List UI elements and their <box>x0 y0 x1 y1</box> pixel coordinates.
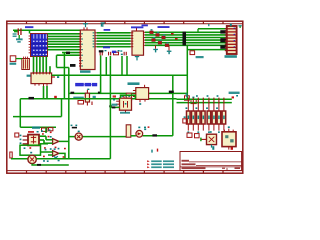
node marks caps row <box>118 50 123 55</box>
wires U3 bottom drops <box>44 86 48 99</box>
label R11 <box>73 97 84 100</box>
junction bar V2 low <box>72 127 77 129</box>
bus DIS1 to U1 <box>48 34 81 55</box>
wire crystal drop <box>29 30 31 33</box>
wire K1 to V5 <box>110 106 119 108</box>
series resistors on bus <box>150 29 178 46</box>
transistor Q9 <box>190 51 204 58</box>
wire stub column B <box>56 55 58 67</box>
wire to J1 pin1 <box>198 28 227 30</box>
node marks cluster H <box>24 147 60 162</box>
resistor R7 <box>216 104 221 130</box>
frame column ticks <box>27 21 224 173</box>
label U1 value <box>80 70 91 72</box>
label net mid <box>158 26 170 28</box>
label MCU big <box>75 83 97 86</box>
resistor R10 <box>49 128 53 131</box>
bus double line right <box>177 102 232 104</box>
junction blob J1-3 <box>220 45 226 49</box>
node marks above title block <box>151 146 233 152</box>
wire bottom mid <box>36 158 110 160</box>
frame outer border <box>7 21 243 173</box>
resistor R1 <box>186 104 191 130</box>
buzzer LS1 <box>75 131 82 141</box>
junction blob H10 <box>152 134 157 136</box>
main vertical V2 <box>68 68 70 159</box>
wire pin1 riser <box>197 29 199 33</box>
junction blob V8 top <box>169 91 174 93</box>
optocoupler U4 <box>20 135 46 146</box>
LED matrix DIS1 <box>29 34 48 57</box>
wire V5a <box>105 57 107 75</box>
wire to J1 pin8 <box>187 49 227 51</box>
red label cluster G <box>28 131 34 133</box>
wire V7 <box>126 56 128 75</box>
node marks V2 low <box>71 125 78 127</box>
wire H7 long <box>20 98 176 100</box>
capacitor C7 <box>126 93 131 100</box>
motor M1 <box>28 152 36 164</box>
diode D8 <box>15 133 19 137</box>
capacitor C5 <box>78 96 96 105</box>
bus U1 to U2 <box>97 33 131 47</box>
resistor R9 <box>42 128 48 131</box>
junction blob H7 <box>29 97 35 100</box>
bridge BR1 <box>200 131 216 147</box>
label R group <box>32 126 40 128</box>
power flag drop A <box>153 45 158 52</box>
label net top <box>142 25 148 27</box>
power flag U2 bottom <box>135 56 139 60</box>
bus end marks <box>229 92 240 99</box>
resistor R4 <box>202 104 206 130</box>
resistor R6 <box>212 104 216 130</box>
label U5 <box>128 82 140 85</box>
wire V9 <box>186 45 188 99</box>
power flag U1 top <box>83 23 88 27</box>
wire H8 <box>13 116 62 118</box>
resistor network RN1 <box>22 57 30 70</box>
label net C <box>103 46 110 48</box>
wire V6 <box>121 56 123 75</box>
diode D7 <box>10 152 12 158</box>
label U1 name <box>104 29 111 31</box>
wire H10 <box>143 135 173 137</box>
transistor Q6 <box>183 116 188 123</box>
junction blob H6b <box>98 92 101 94</box>
resistor R11 <box>85 89 89 106</box>
wire top rail <box>13 29 80 31</box>
node mark above J1 <box>230 24 232 27</box>
feedback loop wire <box>20 145 41 155</box>
IC U3 <box>31 72 52 86</box>
label U2 name <box>131 26 143 28</box>
wire stub G2 <box>40 143 48 145</box>
capacitor C9 <box>126 125 131 137</box>
power flag drop B <box>167 45 172 54</box>
IC U5 <box>133 85 149 103</box>
node marks red cluster H <box>29 147 64 158</box>
wire H9 <box>20 126 56 128</box>
junction blob bottom <box>37 164 41 166</box>
junction blob <box>66 52 70 54</box>
node mark H7 <box>54 96 57 98</box>
transistor Q3 <box>185 93 197 103</box>
wire V5 <box>109 56 111 159</box>
node marks on bus <box>186 95 218 97</box>
node marks below resistors <box>187 131 219 133</box>
label X1 <box>25 26 33 28</box>
wire H4 <box>52 74 188 76</box>
connector J1 <box>225 26 237 54</box>
wires DIS1 bottom to U3 <box>34 57 51 74</box>
node marks right of D5 <box>144 126 149 130</box>
bus U2 to J1 <box>145 32 227 45</box>
resistor R2 <box>192 104 196 130</box>
transistor Q4 <box>187 133 192 137</box>
node tick frame top A <box>101 24 102 27</box>
junction blob <box>70 64 76 67</box>
sensor SW1 <box>10 56 22 65</box>
junction blob V5 <box>109 105 112 107</box>
label K1 <box>120 112 130 114</box>
pin U3 right <box>52 76 60 78</box>
crystal X1 <box>13 28 23 42</box>
junction blob J1-1 <box>220 30 226 33</box>
wire K1 top to U5 <box>121 95 136 99</box>
IC U2 <box>131 28 145 55</box>
bus ticks <box>188 98 224 105</box>
ground symbol below U7B <box>54 156 59 159</box>
node mark right of J1 <box>238 25 241 28</box>
junction blob K1 <box>112 106 115 108</box>
label net D <box>112 51 116 54</box>
node mark U5 <box>139 103 141 105</box>
junction blob J1-2 <box>220 38 226 42</box>
wire bottom left <box>11 158 28 160</box>
label J1 <box>225 55 237 58</box>
diode D5 <box>131 127 146 138</box>
title block <box>180 152 242 171</box>
junction blob <box>99 50 104 52</box>
bus bar black <box>183 32 187 46</box>
wire stub column A <box>63 53 65 99</box>
wire stub G1 <box>45 128 47 133</box>
label U3 <box>27 75 31 77</box>
junction blob H6a <box>71 92 75 94</box>
wire bottom stub <box>32 164 69 165</box>
wire H3 <box>57 67 69 69</box>
wire V8 <box>172 75 174 136</box>
wire V12 <box>19 99 21 128</box>
resistor R3 <box>196 104 201 130</box>
decoupling caps row <box>100 50 127 55</box>
wire H6 <box>69 92 188 94</box>
node marks K1 left <box>112 95 118 105</box>
resistor R5 <box>206 104 211 130</box>
op-amp U7B <box>41 148 66 159</box>
IC U1 <box>79 27 97 69</box>
relay K1 <box>116 95 131 113</box>
wire H11 <box>69 136 126 138</box>
revision list rows <box>147 160 174 168</box>
extra sprinkle marks cluster G <box>42 132 66 150</box>
node tick frame top B <box>208 24 209 26</box>
wire V3 <box>61 99 63 117</box>
bus double line left <box>177 98 232 100</box>
rectifier U6 <box>222 126 236 149</box>
transistor Q5 <box>195 134 200 138</box>
op-amp U7A <box>44 136 69 148</box>
resistor R8 <box>222 104 226 130</box>
power flag top left of U1 <box>101 22 105 26</box>
wire V4 <box>100 55 102 93</box>
